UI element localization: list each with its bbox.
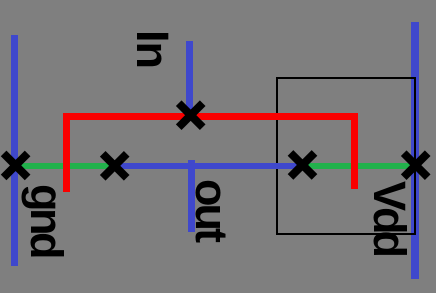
transistor cell boundary rectangle	[276, 77, 416, 235]
node source contact X2	[103, 154, 127, 178]
node In contact X3	[179, 103, 203, 127]
node drain contact X4	[291, 153, 315, 177]
wire: red poly left leg	[63, 113, 70, 192]
label gnd	[24, 184, 69, 256]
wire: green diffusion left segment	[20, 163, 114, 169]
wire: gnd metal vertical (left blue)	[11, 35, 18, 266]
wire: In metal vertical (middle blue)	[186, 41, 193, 120]
wire: red poly horizontal	[63, 113, 358, 120]
wire: out metal stem	[188, 160, 195, 232]
label In	[130, 30, 175, 68]
node Vdd contact X5	[404, 153, 428, 177]
wire: green diffusion right segment	[303, 163, 414, 169]
label Vdd	[367, 181, 412, 254]
wire: Vdd metal vertical (right blue)	[411, 22, 419, 279]
node gnd contact X1	[4, 153, 28, 177]
wire: blue metal horizontal (out rail)	[114, 163, 303, 169]
wire: red poly right leg	[351, 113, 358, 190]
label out	[189, 179, 234, 240]
